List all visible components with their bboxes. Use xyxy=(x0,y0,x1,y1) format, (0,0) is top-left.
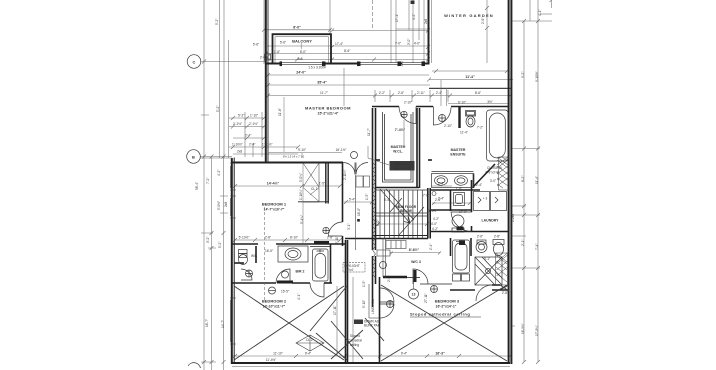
svg-text:5'-2": 5'-2" xyxy=(216,106,220,112)
bubble A partial xyxy=(188,363,201,368)
bubble 13 xyxy=(409,289,419,299)
sym ens door xyxy=(439,115,446,122)
tub ensuite xyxy=(487,110,509,161)
wall master wcl east double xyxy=(416,108,418,188)
dim row 35-4 xyxy=(268,84,430,86)
wall hall bottom / stair bottom xyxy=(345,238,428,240)
svg-text:1'-10¾": 1'-10¾" xyxy=(299,189,303,200)
svg-text:1'-10": 1'-10" xyxy=(250,114,258,118)
wall stair east double xyxy=(427,188,429,239)
wall B horizontal xyxy=(232,162,344,164)
svg-text:58'-4": 58'-4" xyxy=(195,182,199,190)
shelf 5sh xyxy=(453,274,461,281)
balcony inner line xyxy=(275,37,329,63)
door master bedroom double xyxy=(343,163,368,175)
left dim line mid xyxy=(211,157,213,370)
svg-text:2'-4": 2'-4" xyxy=(249,143,255,147)
svg-text:3'-1": 3'-1" xyxy=(347,224,351,230)
stair treads xyxy=(380,190,422,238)
leader line xyxy=(368,158,389,165)
left outer dim line xyxy=(203,0,205,370)
svg-text:2'-4": 2'-4" xyxy=(438,182,444,186)
left ticks xyxy=(201,115,228,362)
wall south xyxy=(232,362,511,364)
laundry sink xyxy=(454,193,465,206)
svg-text:1.5 x 3 200#: 1.5 x 3 200# xyxy=(308,66,326,70)
top-left vline to dim xyxy=(263,0,265,64)
left dim line 4 top xyxy=(228,40,230,158)
wc3 dim xyxy=(390,252,440,254)
wall corridor east (bedroom3 west) xyxy=(379,277,381,363)
left small dim rows above B wall xyxy=(229,117,264,119)
bedroom1 top dim xyxy=(235,185,340,187)
svg-text:BEDROOM 2: BEDROOM 2 xyxy=(262,299,287,304)
svg-text:14'-7"x10'-7": 14'-7"x10'-7" xyxy=(264,208,285,212)
svg-text:2'-6": 2'-6" xyxy=(387,276,391,282)
svg-text:BEDROOM 3: BEDROOM 3 xyxy=(435,299,460,304)
svg-text:5'-6": 5'-6" xyxy=(253,43,259,47)
door master ensuite xyxy=(434,107,452,126)
wall bath east xyxy=(330,244,332,283)
wall north: segments between windows xyxy=(266,63,430,65)
wall ensuite south xyxy=(376,159,380,161)
svg-text:BUNK PAD: BUNK PAD xyxy=(394,167,411,171)
sym hall top xyxy=(351,152,358,159)
door br2 bath xyxy=(276,269,290,283)
wall laundry west xyxy=(471,180,473,212)
bubble B xyxy=(187,150,201,164)
wall east full xyxy=(508,0,510,364)
svg-text:8'-0": 8'-0" xyxy=(376,220,380,226)
wc3 shelf xyxy=(386,241,406,249)
hall vertical dim xyxy=(336,286,338,356)
svg-text:4'-1": 4'-1" xyxy=(297,294,301,300)
svg-text:11'-4½": 11'-4½" xyxy=(266,358,277,362)
svg-text:B/R 2: B/R 2 xyxy=(296,270,305,274)
svg-text:1'-5": 1'-5" xyxy=(365,194,369,200)
sym br2 xyxy=(282,271,289,278)
wall bath3 south xyxy=(450,289,475,291)
wc vline dims xyxy=(403,120,405,145)
svg-text:2'-2": 2'-2" xyxy=(379,91,385,95)
svg-text:2x8: 2x8 xyxy=(237,150,242,154)
balcony right vline up xyxy=(329,0,331,34)
svg-text:3'-0": 3'-0" xyxy=(490,179,496,183)
wall master wcl west double xyxy=(372,108,374,250)
vertical dim lines interior xyxy=(265,68,405,362)
wall vanity south xyxy=(430,189,480,191)
svg-text:8'-6": 8'-6" xyxy=(475,91,481,95)
svg-text:8'-2": 8'-2" xyxy=(521,176,525,182)
svg-text:3'-1": 3'-1" xyxy=(484,257,490,261)
svg-text:2'-4": 2'-4" xyxy=(429,244,433,250)
wall laundry south xyxy=(430,231,509,233)
door bedroom2 xyxy=(310,283,324,297)
tub bath3 xyxy=(453,240,470,273)
svg-text:2'-8": 2'-8" xyxy=(327,236,333,240)
door bedroom3 lower xyxy=(380,304,394,318)
laundry washer xyxy=(474,192,490,211)
svg-text:+ 3: + 3 xyxy=(483,197,488,201)
svg-text:MASTER: MASTER xyxy=(391,145,406,149)
laundry tub circle xyxy=(452,215,464,227)
svg-text:MASTER BEDROOM: MASTER BEDROOM xyxy=(305,106,351,111)
svg-text:5'-2": 5'-2" xyxy=(238,114,244,118)
svg-text:2'-4": 2'-4" xyxy=(436,91,442,95)
svg-text:5'-2": 5'-2" xyxy=(218,242,222,248)
cl small xyxy=(377,250,390,256)
svg-text:9'-10": 9'-10" xyxy=(298,148,306,152)
svg-text:C: C xyxy=(193,60,196,65)
svg-text:2'-6": 2'-6" xyxy=(398,91,404,95)
svg-text:5'-0¾": 5'-0¾" xyxy=(299,173,303,182)
svg-text:7'-2": 7'-2" xyxy=(477,126,483,130)
door laundry xyxy=(451,212,472,232)
svg-text:2'-4": 2'-4" xyxy=(476,183,482,187)
svg-text:2'x4': 2'x4' xyxy=(347,268,354,272)
svg-text:17'-1": 17'-1" xyxy=(395,14,399,22)
svg-text:W/C 3: W/C 3 xyxy=(411,260,421,264)
svg-text:8'h 1.5 14 x 7 '10: 8'h 1.5 14 x 7 '10 xyxy=(283,154,305,158)
wall W/B closet xyxy=(255,246,257,263)
svg-text:14'-7": 14'-7" xyxy=(221,320,225,328)
b2 ceiling diagonals xyxy=(310,286,347,331)
svg-text:1'-8": 1'-8" xyxy=(456,187,462,191)
svg-text:9'-2": 9'-2" xyxy=(521,72,525,78)
svg-text:BALCONY: BALCONY xyxy=(292,39,312,44)
dim slashes left xyxy=(202,60,226,365)
svg-text:4'-2": 4'-2" xyxy=(432,227,438,231)
svg-text:35'-4": 35'-4" xyxy=(317,81,327,85)
right dim line 1 xyxy=(523,21,525,362)
closet cl1 xyxy=(303,163,319,203)
wall wc3 south thick xyxy=(383,276,407,279)
b3 diagonal 1 xyxy=(381,285,507,361)
svg-text:4'-0": 4'-0" xyxy=(431,222,437,226)
sym b2 bottom xyxy=(269,287,276,294)
bedroom1 bottom dims xyxy=(235,239,340,241)
hatch closet east A xyxy=(499,157,509,190)
svg-text:2'-10": 2'-10" xyxy=(444,124,452,128)
svg-text:2'-11": 2'-11" xyxy=(417,91,425,95)
svg-text:7'-2": 7'-2" xyxy=(206,178,210,184)
svg-text:7'-0": 7'-0" xyxy=(395,42,401,46)
svg-text:5'-4": 5'-4" xyxy=(349,198,355,202)
svg-text:BELOW: BELOW xyxy=(400,209,412,213)
b2 big X xyxy=(234,286,344,360)
svg-text:5'-2": 5'-2" xyxy=(215,19,219,25)
svg-text:4'-1": 4'-1" xyxy=(538,10,542,16)
svg-text:W/B: W/B xyxy=(251,254,257,258)
svg-text:9'-4": 9'-4" xyxy=(305,352,311,356)
wall close-in diagonal xyxy=(473,164,495,187)
svg-text:13'-10"x11'-7": 13'-10"x11'-7" xyxy=(263,305,286,309)
left dim line mid2 xyxy=(223,157,225,370)
svg-text:11'-4": 11'-4" xyxy=(460,131,468,135)
svg-text:17'-4": 17'-4" xyxy=(335,42,343,46)
svg-text:2'-4": 2'-4" xyxy=(245,134,251,138)
bubble C xyxy=(187,55,201,69)
svg-text:6'-10": 6'-10" xyxy=(458,101,466,105)
wg inner dim 11-4 xyxy=(434,69,509,73)
stair arrow xyxy=(380,189,410,223)
svg-text:11'-4": 11'-4" xyxy=(535,176,539,184)
dim row 11-4 xyxy=(429,79,513,81)
toilet bath3 xyxy=(476,242,487,253)
svg-text:2'-4": 2'-4" xyxy=(438,197,444,201)
svg-text:11'-6½": 11'-6½" xyxy=(427,209,438,213)
svg-text:BEDROOM 1: BEDROOM 1 xyxy=(262,202,287,207)
hatch closet east B xyxy=(496,253,508,285)
svg-text:15'-5": 15'-5" xyxy=(281,290,289,294)
svg-text:W.CL.: W.CL. xyxy=(393,150,403,154)
bottom dim row xyxy=(232,355,510,357)
svg-text:4'-9"x3'-0": 4'-9"x3'-0" xyxy=(485,171,499,175)
svg-text:11'-10": 11'-10" xyxy=(273,352,283,356)
right dim ticks xyxy=(511,21,552,326)
svg-text:Sloped: Sloped xyxy=(350,334,360,338)
wall west full xyxy=(231,158,233,364)
svg-text:5'-0½": 5'-0½" xyxy=(217,201,221,210)
linen closet lines xyxy=(368,284,370,318)
svg-text:4'-0": 4'-0" xyxy=(414,42,420,46)
svg-text:Sloped cathedral ceiling: Sloped cathedral ceiling xyxy=(410,312,470,317)
stair width dim xyxy=(378,223,427,225)
svg-text:WINTER GARDEN: WINTER GARDEN xyxy=(444,13,494,18)
svg-text:1'-10½": 1'-10½" xyxy=(232,143,243,147)
svg-text:B: B xyxy=(192,155,195,160)
wall winter garden west xyxy=(428,0,430,65)
svg-text:11'-4": 11'-4" xyxy=(465,75,475,79)
short vticks upper partition row xyxy=(375,90,448,102)
svg-text:5'-10": 5'-10" xyxy=(362,300,366,308)
svg-text:2-2x8: 2-2x8 xyxy=(511,214,515,222)
svg-text:2'-1½": 2'-1½" xyxy=(249,122,258,126)
svg-text:9'-4": 9'-4" xyxy=(401,352,407,356)
master bedroom interior dim vline xyxy=(343,68,345,106)
svg-text:3'-0": 3'-0" xyxy=(407,39,411,45)
svg-text:2x8: 2x8 xyxy=(224,202,228,207)
corridor dim xyxy=(344,201,372,203)
svg-text:13: 13 xyxy=(412,293,416,297)
wall ensuite north xyxy=(372,106,399,108)
svg-text:4'-2": 4'-2" xyxy=(412,14,416,20)
sym wc3 xyxy=(380,262,387,269)
door bedroom3 upper xyxy=(380,288,394,302)
svg-text:1'-5": 1'-5" xyxy=(362,281,366,287)
grid line C xyxy=(201,61,266,63)
svg-text:17'-5¾": 17'-5¾" xyxy=(535,325,539,336)
left dim line 2 top xyxy=(219,0,221,158)
svg-text:14'-4½": 14'-4½" xyxy=(267,182,280,186)
svg-text:Cathedral: Cathedral xyxy=(348,339,362,343)
svg-text:7'-4": 7'-4" xyxy=(535,244,539,250)
b3 diagonal 2 xyxy=(381,285,507,361)
closet U shelf outer xyxy=(383,112,414,182)
svg-text:7'-6": 7'-6" xyxy=(423,194,429,198)
door bath3 shower area xyxy=(476,285,492,301)
svg-text:3½": 3½" xyxy=(487,100,493,104)
svg-text:4'-2": 4'-2" xyxy=(433,217,439,221)
svg-text:2'-10": 2'-10" xyxy=(404,101,412,105)
svg-text:1'-6": 1'-6" xyxy=(274,50,280,54)
sym bath1 xyxy=(246,270,253,277)
svg-text:16'-7": 16'-7" xyxy=(205,319,209,327)
svg-text:17'-11": 17'-11" xyxy=(333,305,337,315)
svg-text:11'-7": 11'-7" xyxy=(320,91,328,95)
west wall inner line xyxy=(230,163,236,218)
svg-text:17'-0": 17'-0" xyxy=(459,210,467,214)
svg-text:2'-8": 2'-8" xyxy=(494,235,500,239)
svg-text:2'-11": 2'-11" xyxy=(335,236,339,244)
wc3 west wall xyxy=(382,238,384,277)
svg-text:4'-2": 4'-2" xyxy=(217,170,221,176)
svg-text:2'-1½": 2'-1½" xyxy=(233,122,242,126)
drwr boxed label xyxy=(390,161,415,171)
svg-text:5'-4¾": 5'-4¾" xyxy=(300,215,304,224)
toilet ensuite xyxy=(466,111,476,117)
svg-text:27'-11": 27'-11" xyxy=(424,293,428,303)
right dim slashes xyxy=(522,0,554,364)
door wc3 xyxy=(413,269,428,284)
svg-text:5'-4": 5'-4" xyxy=(384,198,390,202)
wall bath strip bottom xyxy=(232,282,276,284)
svg-text:4'-0": 4'-0" xyxy=(457,228,463,232)
sym b1 door xyxy=(323,227,329,233)
svg-text:24'-0": 24'-0" xyxy=(296,71,306,75)
laundry dryer xyxy=(491,192,507,211)
drwr label b2 xyxy=(354,320,363,325)
svg-text:3'-2": 3'-2" xyxy=(206,237,210,243)
bottom thin line xyxy=(232,366,510,368)
svg-text:16'-2"x14'-1": 16'-2"x14'-1" xyxy=(436,305,457,309)
svg-text:CL 1: CL 1 xyxy=(311,187,318,191)
svg-text:2'-6": 2'-6" xyxy=(477,235,483,239)
hall dims near laundry xyxy=(432,202,470,204)
vticks left rows xyxy=(245,112,262,157)
dim rows right of balcony xyxy=(332,30,428,32)
door bath1 xyxy=(241,269,252,280)
wall bedroom3 north xyxy=(420,283,452,285)
svg-text:11'-6": 11'-6" xyxy=(278,108,282,116)
right dim line 2 xyxy=(537,0,539,362)
closet U shelf inner xyxy=(385,114,412,180)
wall bath strip top xyxy=(232,243,258,245)
right top tick line xyxy=(551,0,553,8)
svg-text:2x8: 2x8 xyxy=(424,19,428,24)
sink bath3 xyxy=(493,240,504,245)
wall laundry north xyxy=(430,209,471,211)
svg-text:LINEN CL.: LINEN CL. xyxy=(371,299,375,314)
svg-text:16'-9¼": 16'-9¼" xyxy=(521,323,525,334)
wavy insulation line xyxy=(373,162,376,278)
sink b/r1 counter xyxy=(278,246,308,262)
svg-text:5'-6": 5'-6" xyxy=(280,41,286,45)
svg-text:1'-5": 1'-5" xyxy=(319,182,325,186)
dim row 24-0 xyxy=(268,74,429,76)
left dim line 3 top xyxy=(223,0,225,158)
wall toilet partition xyxy=(458,107,460,129)
door master wcl xyxy=(399,107,416,124)
svg-text:8'-0": 8'-0" xyxy=(293,26,301,30)
stair rails xyxy=(376,189,428,191)
toilet b/r1 xyxy=(239,250,248,254)
windows on north wall xyxy=(230,61,423,344)
hall center line xyxy=(355,175,357,250)
vanity ensuite xyxy=(432,174,474,188)
wg dim lines xyxy=(390,0,392,63)
svg-text:CL 2: CL 2 xyxy=(306,338,313,342)
wall close-in west xyxy=(473,174,475,189)
svg-text:16'-5": 16'-5" xyxy=(265,249,273,253)
svg-text:2'-1": 2'-1" xyxy=(521,240,525,246)
svg-text:15'-2"x21'-4": 15'-2"x21'-4" xyxy=(318,112,339,116)
svg-text:2'-6": 2'-6" xyxy=(481,18,485,24)
balcony top dim xyxy=(264,29,331,31)
svg-text:LAUNDRY: LAUNDRY xyxy=(482,219,500,223)
svg-text:1'-11½": 1'-11½" xyxy=(262,143,273,147)
bedroom1 closet dims xyxy=(302,163,304,244)
door bedroom1 xyxy=(329,222,343,236)
svg-text:2x8: 2x8 xyxy=(297,57,302,61)
tub b/r2 xyxy=(313,249,329,281)
svg-text:16'-1½": 16'-1½" xyxy=(336,148,347,152)
svg-text:2'-8": 2'-8" xyxy=(502,291,508,295)
svg-text:5'-10½": 5'-10½" xyxy=(239,236,250,240)
wall wcl south xyxy=(376,187,420,189)
svg-text:ENSUITE: ENSUITE xyxy=(450,153,466,157)
sym corridor xyxy=(387,301,394,308)
svg-text:8'-6½": 8'-6½" xyxy=(409,248,420,252)
shower bath3 xyxy=(475,257,502,285)
svg-text:8'-6": 8'-6" xyxy=(344,49,350,53)
svg-text:11'-7": 11'-7" xyxy=(367,128,371,136)
svg-text:16'-3": 16'-3" xyxy=(435,352,445,356)
wall bedroom1 east xyxy=(342,163,344,223)
svg-text:8'-10": 8'-10" xyxy=(290,236,298,240)
sym b3 xyxy=(431,286,438,293)
wall bedroom2 east xyxy=(345,240,347,362)
svg-text:BUNK PAD: BUNK PAD xyxy=(364,323,381,327)
leader to 13 xyxy=(413,278,415,290)
dim row upper partitions xyxy=(268,95,510,97)
svg-text:MASTER: MASTER xyxy=(451,148,466,152)
wall bath3 divider xyxy=(470,238,472,256)
svg-text:ceiling: ceiling xyxy=(350,343,359,347)
wall bath3 west xyxy=(450,238,452,256)
svg-text:16'-0": 16'-0" xyxy=(357,208,361,216)
svg-text:9'-10½": 9'-10½" xyxy=(535,71,539,82)
svg-text:2'-8": 2'-8" xyxy=(265,236,271,240)
balcony walls xyxy=(273,34,332,62)
svg-text:2'-0": 2'-0" xyxy=(260,56,266,60)
wall top-left vertical xyxy=(265,0,267,163)
svg-text:CLOSE IN: CLOSE IN xyxy=(487,166,503,170)
svg-text:8'-0": 8'-0" xyxy=(300,50,306,54)
grid line B xyxy=(200,156,232,158)
svg-text:2'-11¾": 2'-11¾" xyxy=(343,169,347,180)
sym wcl door xyxy=(401,111,407,117)
